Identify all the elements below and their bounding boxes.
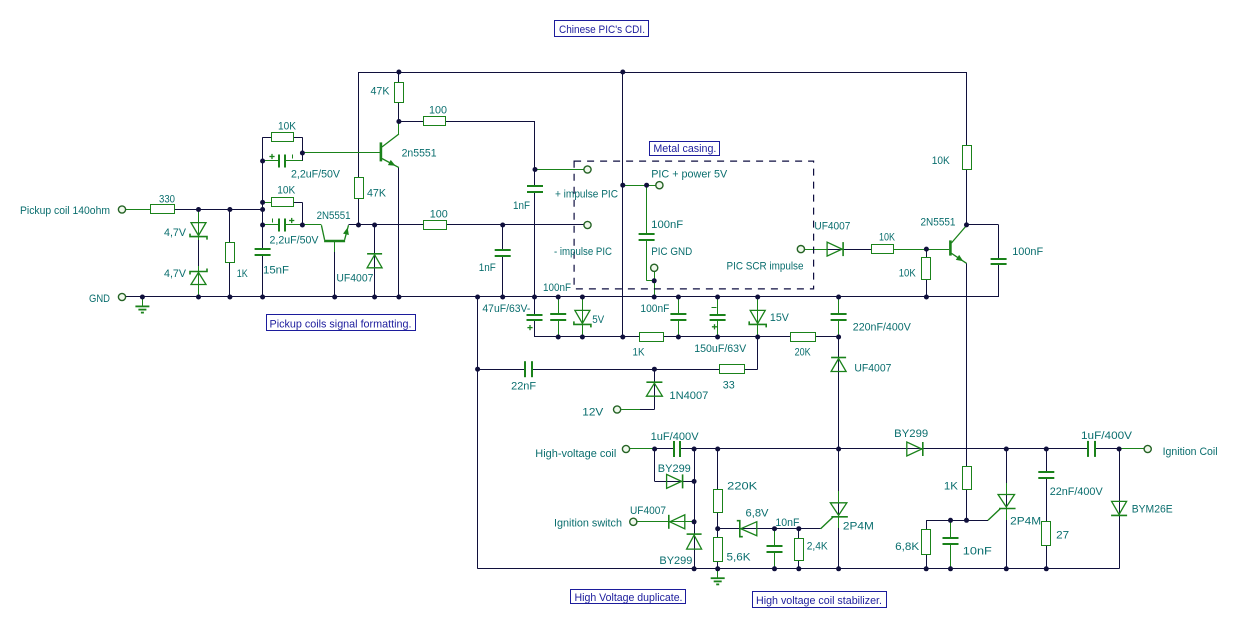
svg-text:27: 27 [1056, 530, 1069, 542]
wire Q2 base column x334 [334, 242, 336, 297]
wire SCR1 column x838 [838, 337, 840, 569]
capacitor 2,2uF/50V a [269, 154, 340, 181]
svg-text:100nF: 100nF [651, 219, 683, 231]
capacitor 47uF/63V [482, 303, 543, 330]
svg-text:100: 100 [430, 209, 448, 221]
svg-text:2P4M: 2P4M [1010, 516, 1041, 528]
wire 1K column x230 [229, 210, 231, 298]
svg-text:PIC GND: PIC GND [651, 246, 692, 258]
wire Q1 base row [302, 152, 380, 154]
wire SCR impulse pin stub [805, 249, 827, 251]
svg-text:UF4007: UF4007 [630, 505, 666, 517]
svg-text:High voltage coil stabilizer.: High voltage coil stabilizer. [756, 595, 882, 607]
svg-text:6,8K: 6,8K [895, 541, 920, 553]
svg-text:15V: 15V [770, 312, 790, 324]
wire +impulse pin lead [535, 169, 584, 171]
wire 220K column x717 [717, 449, 719, 569]
diode BY299 b [659, 534, 701, 567]
wire collector row y121 to +impulse corner [399, 122, 535, 170]
svg-text:BY299: BY299 [659, 555, 692, 567]
resistor 1K right [944, 467, 972, 493]
svg-text:2,2uF/50V: 2,2uF/50V [270, 235, 320, 247]
svg-text:4,7V: 4,7V [164, 268, 187, 280]
wire Q3 emitter column x966 [966, 263, 968, 520]
wire 100nF-r loop [967, 225, 999, 298]
capacitor 10nF a [766, 517, 800, 552]
capacitor 100nF a [543, 282, 571, 320]
svg-text:10nF: 10nF [963, 546, 992, 558]
wire 100nFa column x558 [558, 297, 560, 337]
svg-text:BYM26E: BYM26E [1132, 504, 1173, 516]
pin 12V [582, 406, 620, 419]
zener D2 4,7V [164, 268, 207, 285]
svg-text:1K: 1K [237, 268, 249, 280]
svg-text:High-voltage coil: High-voltage coil [535, 448, 616, 460]
svg-text:4,7V: 4,7V [164, 227, 187, 239]
svg-text:GND: GND [89, 293, 110, 305]
wire 100nF-pic column [647, 185, 655, 281]
resistor 47K b [355, 178, 387, 200]
svg-text:10nF: 10nF [775, 517, 799, 529]
svg-text:PIC SCR impulse: PIC SCR impulse [727, 261, 804, 273]
diode UF4007 b [630, 505, 685, 529]
resistor 27 [1042, 522, 1070, 546]
resistor 5,6K [714, 538, 752, 564]
wire SCR1 gate diagonal [821, 517, 834, 529]
resistor 100 a [424, 105, 448, 126]
ground main [711, 569, 725, 585]
diode 1N4007 [646, 382, 708, 402]
diode UF4007 d [831, 358, 891, 375]
wire mid rail y337 [535, 336, 839, 338]
capacitor 100nF right [990, 246, 1044, 264]
pin Pickup coil [20, 205, 126, 217]
transistor Q3 2N5551 [921, 217, 967, 264]
wire 47K1 branch x399 [398, 72, 400, 122]
pin GND [89, 293, 126, 305]
svg-text:PIC + power 5V: PIC + power 5V [651, 169, 728, 181]
svg-text:- impulse PIC: - impulse PIC [554, 246, 612, 258]
svg-text:10K: 10K [932, 155, 951, 167]
svg-text:220nF/400V: 220nF/400V [853, 322, 912, 334]
pin Ignition Coil [1144, 445, 1218, 458]
thyristor 2P4M b [998, 483, 1041, 528]
svg-text:2,4K: 2,4K [807, 541, 829, 553]
resistor 330 [151, 194, 176, 214]
zener 5V [574, 310, 605, 327]
zener 15V [749, 310, 789, 327]
svg-text:22nF/400V: 22nF/400V [1050, 486, 1104, 498]
svg-text:+ impulse PIC: + impulse PIC [555, 189, 618, 201]
svg-text:1nF: 1nF [513, 200, 530, 212]
resistor 1K mid [633, 333, 664, 359]
resistor 10K c [872, 232, 896, 254]
wire HV pin stub [630, 448, 655, 450]
svg-text:10K: 10K [879, 232, 896, 244]
svg-text:12V: 12V [582, 407, 604, 419]
resistor 10K d [899, 258, 931, 280]
svg-text:BY299: BY299 [894, 428, 928, 440]
svg-text:Ignition switch: Ignition switch [554, 518, 622, 530]
diode UF4007 a [336, 254, 382, 285]
svg-text:20K: 20K [795, 347, 812, 359]
title Metal casing [650, 142, 720, 156]
svg-text:2n5551: 2n5551 [402, 148, 437, 160]
resistor 33 [720, 365, 745, 392]
svg-text:5V: 5V [592, 314, 605, 326]
wire zener chain x198 [198, 210, 200, 298]
wire 10K1 left lead [263, 137, 272, 297]
wire 1nF2 column x502 [502, 225, 504, 297]
svg-text:100nF: 100nF [640, 303, 669, 315]
wire Q3 base lead [894, 249, 949, 251]
resistor 1K pickup [226, 243, 249, 281]
svg-text:1uF/400V: 1uF/400V [651, 431, 700, 443]
capacitor 150uF/63V [694, 308, 747, 356]
wire SCR impulse row y249 [805, 249, 949, 251]
wire ignition switch row [637, 521, 694, 523]
capacitor 1uF/400V b [1081, 430, 1133, 458]
wire 5V zener column x582 [582, 297, 584, 337]
diode UF4007 c [814, 221, 850, 257]
wire SCR2 gate diagonal [988, 509, 1001, 521]
resistor 100 b [424, 209, 448, 230]
wire 47K2 lower lead x358 [358, 199, 360, 225]
title High Voltage duplicate [571, 590, 686, 604]
svg-text:1N4007: 1N4007 [669, 390, 708, 402]
zener D1 4,7V [164, 223, 207, 240]
wire 10K2 right lead [294, 202, 303, 225]
wire right vertical upper x966 [966, 72, 968, 225]
wire pickup row y209 [126, 209, 263, 211]
wire BY299a branch [655, 449, 695, 482]
wire 10nF2 column x950 [950, 520, 952, 569]
wire Q1 emitter column x399 [398, 168, 400, 297]
wire 22nF400 column x1046 [1046, 449, 1048, 569]
svg-text:6,8V: 6,8V [746, 508, 770, 520]
resistor 10K a [272, 121, 297, 142]
capacitor 22nF [511, 360, 536, 392]
wire 68V row y528 [718, 528, 821, 530]
wire 15V zener column x757 [757, 297, 759, 337]
wire gnd row [126, 296, 999, 298]
svg-text:Pickup coil 140ohm: Pickup coil 140ohm [20, 205, 110, 217]
pin Ignition switch [554, 518, 637, 530]
svg-text:150uF/63V: 150uF/63V [694, 343, 747, 355]
wire BYM26E column x1119 [1119, 449, 1121, 569]
svg-text:2N5551: 2N5551 [921, 217, 956, 229]
wire diode column x694 [694, 449, 696, 569]
svg-text:1K: 1K [633, 347, 646, 359]
transistor Q2 2N5551 [317, 210, 351, 252]
wire 150uF column x717 [717, 297, 719, 337]
capacitor 2,2uF/50V b [270, 218, 320, 247]
capacitor 22nF/400V [1037, 472, 1103, 498]
wire left big vertical x477 [477, 297, 479, 569]
svg-text:330: 330 [159, 194, 175, 206]
wire 10K pulldown column x926 [926, 249, 928, 297]
svg-text:47uF/63V-: 47uF/63V- [482, 303, 530, 315]
resistor 47K a [371, 83, 404, 103]
diode BYM26E [1111, 501, 1173, 515]
wire 24K column x798 [798, 529, 800, 569]
pin + impulse PIC [555, 166, 618, 201]
pin High-voltage coil [535, 445, 629, 460]
svg-text:High Voltage duplicate.: High Voltage duplicate. [575, 592, 683, 604]
svg-text:2N5551: 2N5551 [317, 210, 351, 222]
resistor 6,8K [895, 530, 930, 555]
svg-text:5,6K: 5,6K [727, 552, 752, 564]
svg-text:BY299: BY299 [658, 463, 691, 475]
pin PIC GND [651, 246, 693, 271]
wire 22nF row y369 [478, 337, 758, 370]
svg-text:2P4M: 2P4M [843, 521, 874, 533]
svg-text:100nF: 100nF [1012, 246, 1043, 258]
resistor 10K e [932, 146, 972, 170]
wire emitter row y225 [349, 224, 584, 226]
wire HV row y449 [630, 448, 1144, 450]
zener 6,8V [737, 508, 769, 537]
thyristor 2P4M a [830, 491, 874, 533]
resistor 20K [791, 333, 816, 359]
wire bottom rail y568 [478, 568, 1120, 570]
wire left branch x358 [358, 72, 360, 225]
wire 1N4007 column [621, 369, 654, 409]
wire 1nF1 column x535 [534, 170, 536, 298]
wire 100nFb column x678 [678, 297, 680, 337]
svg-text:220K: 220K [727, 481, 758, 493]
wire Q2 collector wire [302, 224, 321, 226]
svg-text:47K: 47K [371, 86, 391, 98]
transistor Q1 2n5551 [381, 122, 437, 168]
metal casing dashed box [574, 161, 814, 289]
pin PIC + power 5V [651, 169, 728, 189]
wire ignition coil stub [1119, 448, 1144, 450]
svg-text:100nF: 100nF [543, 282, 571, 294]
svg-text:100: 100 [429, 105, 447, 117]
svg-text:UF4007: UF4007 [854, 363, 891, 375]
wire 5V power pin lead [623, 185, 656, 187]
svg-text:1nF: 1nF [479, 262, 496, 274]
svg-text:1uF/400V: 1uF/400V [1081, 430, 1133, 442]
svg-text:UF4007: UF4007 [336, 273, 373, 285]
svg-text:2,2uF/50V: 2,2uF/50V [291, 169, 341, 181]
wire 10nF1 column x774 [774, 529, 776, 569]
ground pickup [135, 297, 149, 313]
svg-text:15nF: 15nF [263, 265, 289, 277]
wire gate row y520 [926, 520, 988, 522]
wire cap2 leads [263, 224, 303, 226]
svg-text:Pickup coils signal formatting: Pickup coils signal formatting. [270, 319, 412, 331]
svg-text:22nF: 22nF [511, 381, 536, 393]
title High voltage coil stabilizer [753, 592, 887, 608]
wire 47uF column x534 [534, 297, 536, 337]
capacitor 15nF [254, 249, 290, 277]
svg-text:Chinese PIC's CDI.: Chinese PIC's CDI. [559, 24, 645, 36]
pin PIC SCR impulse [727, 246, 805, 273]
svg-text:10K: 10K [277, 185, 296, 197]
svg-text:UF4007: UF4007 [814, 221, 850, 233]
svg-text:1K: 1K [944, 481, 959, 493]
capacitor 1nF b [479, 250, 512, 274]
resistor 2,4K [795, 539, 829, 561]
capacitor 220nF/400V [830, 314, 912, 334]
svg-text:Metal casing.: Metal casing. [653, 143, 716, 155]
title Pickup coils signal formatting [267, 315, 416, 331]
capacitor 100nF pic [638, 219, 684, 240]
wire UF4007a column x374 [374, 225, 376, 297]
wire 10K2 left lead [263, 202, 272, 204]
capacitor 1nF a [513, 186, 544, 212]
pin - impulse PIC [554, 221, 612, 258]
wire 10K1 right lead [294, 137, 303, 161]
title Chinese PICs CDI [555, 21, 649, 37]
wire cap1 right lead [285, 160, 303, 162]
capacitor 10nF b [942, 538, 993, 558]
wire pickup pin stub [126, 209, 150, 211]
wire 5V power column x622 [622, 72, 624, 337]
svg-text:33: 33 [723, 380, 735, 392]
svg-text:10K: 10K [278, 121, 297, 133]
wire 12V pin stub [621, 409, 640, 411]
capacitor 1uF/400V a [651, 431, 700, 458]
svg-text:Ignition Coil: Ignition Coil [1163, 446, 1218, 458]
wire SCR2 column x1006 [1006, 449, 1008, 569]
diode BY299 c [894, 428, 928, 456]
wire cap1 left lead [263, 160, 279, 162]
svg-text:10K: 10K [899, 268, 917, 280]
resistor 10K b [272, 185, 296, 207]
wire top rail [359, 72, 967, 74]
diode BY299 a [658, 463, 691, 488]
wire 68K column x926 [926, 520, 928, 569]
wire PIC GND pin column [654, 272, 656, 297]
svg-text:47K: 47K [367, 188, 387, 200]
capacitor 100nF b [640, 303, 687, 320]
wire 220nF column x838 [838, 297, 840, 337]
resistor 220K [714, 481, 758, 513]
